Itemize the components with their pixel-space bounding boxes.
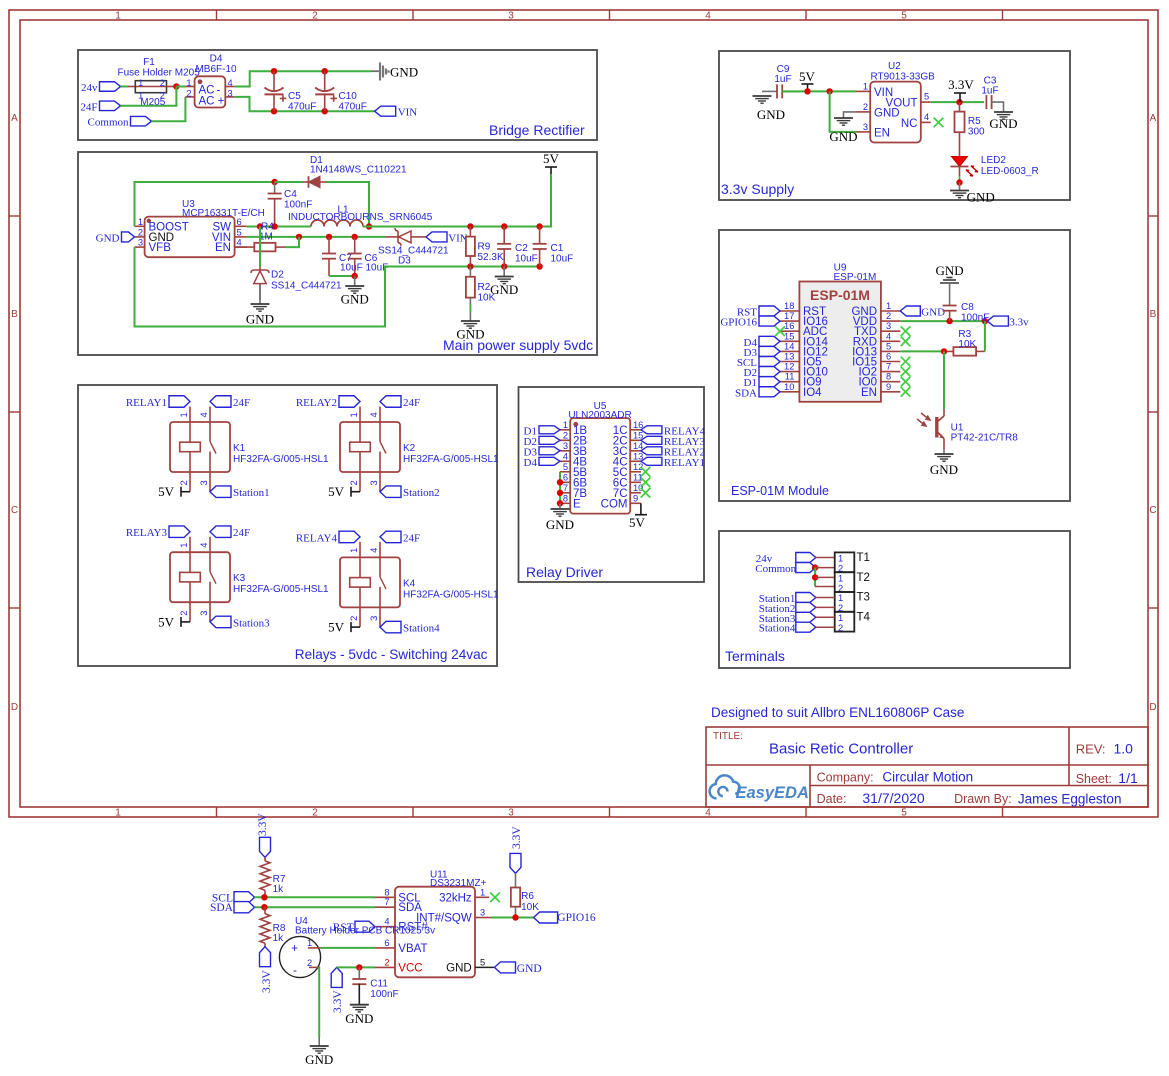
- svg-text:C8: C8: [961, 302, 974, 313]
- svg-text:RELAY2: RELAY2: [296, 397, 337, 409]
- svg-text:T3: T3: [857, 592, 870, 604]
- svg-text:GND: GND: [446, 962, 472, 974]
- net flag D2 (ESP): [759, 367, 780, 377]
- svg-text:Designed to suit Allbro ENL160: Designed to suit Allbro ENL160806P Case: [711, 705, 964, 720]
- svg-text:U2: U2: [888, 61, 901, 72]
- svg-text:Battery Holder PCB CR1025 3v: Battery Holder PCB CR1025 3v: [295, 926, 435, 937]
- net flag SCL (ESP): [759, 357, 780, 367]
- wire: [814, 568, 816, 587]
- junction C11: [356, 964, 362, 970]
- svg-text:2: 2: [349, 616, 359, 621]
- no-connect X on U5 pin 12: [641, 467, 651, 477]
- svg-text:1: 1: [863, 81, 868, 91]
- wire: [782, 90, 857, 92]
- resistor R4 1M: [235, 222, 285, 252]
- svg-text:10K: 10K: [958, 339, 976, 350]
- svg-text:IO4: IO4: [803, 387, 822, 399]
- svg-text:DS3231MZ+: DS3231MZ+: [430, 878, 487, 889]
- terminal T2: [835, 572, 855, 593]
- svg-text:VOUT: VOUT: [886, 98, 918, 110]
- svg-text:1uF: 1uF: [981, 86, 998, 97]
- svg-text:C10: C10: [339, 91, 358, 102]
- svg-text:2: 2: [186, 89, 191, 99]
- net flag RELAY4 (driver): [641, 426, 662, 434]
- svg-text:INT#/SQW: INT#/SQW: [416, 913, 472, 925]
- wire: [247, 236, 386, 238]
- svg-text:D: D: [11, 702, 18, 713]
- svg-text:D: D: [1149, 702, 1156, 713]
- svg-text:1M: 1M: [259, 232, 273, 243]
- svg-text:1: 1: [838, 593, 843, 603]
- svg-text:4: 4: [237, 238, 242, 248]
- sheet frame inner border: [20, 20, 1148, 807]
- svg-text:GND: GND: [829, 129, 857, 144]
- junction 5V: [804, 88, 810, 94]
- net flag 24v: [100, 82, 121, 92]
- svg-text:HF32FA-G/005-HSL1: HF32FA-G/005-HSL1: [233, 454, 329, 465]
- wire: [470, 266, 539, 268]
- junction C5 top: [271, 68, 277, 74]
- svg-text:6: 6: [384, 938, 389, 948]
- svg-text:Station4: Station4: [759, 623, 796, 635]
- svg-text:Common: Common: [755, 563, 796, 575]
- svg-text:Fuse Holder M205: Fuse Holder M205: [118, 68, 201, 79]
- junction C2 bottom: [501, 263, 507, 269]
- svg-text:B: B: [11, 309, 18, 320]
- svg-text:MCP16331T-E/CH: MCP16331T-E/CH: [182, 208, 265, 219]
- net flag D4 (ESP): [759, 336, 780, 346]
- svg-text:TITLE:: TITLE:: [713, 731, 743, 742]
- svg-text:K3: K3: [233, 573, 246, 584]
- svg-text:SS14_C444721: SS14_C444721: [271, 281, 342, 292]
- svg-text:R6: R6: [521, 891, 534, 902]
- net flag D1: [539, 426, 560, 434]
- svg-text:GPIO16: GPIO16: [720, 317, 757, 329]
- svg-text:4: 4: [199, 543, 209, 548]
- svg-text:GND: GND: [517, 963, 542, 975]
- net flag VIN (bridge): [375, 106, 396, 116]
- net flag Common (terminals): [796, 563, 816, 573]
- svg-text:GND: GND: [96, 232, 120, 244]
- svg-text:16: 16: [784, 321, 794, 331]
- svg-text:12: 12: [633, 462, 643, 472]
- svg-text:2: 2: [179, 611, 189, 616]
- wire: [816, 626, 835, 628]
- svg-text:C: C: [11, 505, 18, 516]
- svg-text:VCC: VCC: [398, 962, 422, 974]
- power flag 5V at K2: [351, 487, 360, 497]
- svg-text:RELAY1: RELAY1: [126, 397, 167, 409]
- svg-text:PT42-21C/TR8: PT42-21C/TR8: [951, 433, 1019, 444]
- net flag RELAY2 (driver): [641, 447, 662, 455]
- capacitor C11 100nF: [352, 967, 398, 1004]
- wire: [121, 86, 129, 88]
- svg-text:Date:: Date:: [817, 792, 847, 806]
- wire: [815, 586, 835, 588]
- svg-text:SDA: SDA: [735, 387, 757, 399]
- section box: Relays: [78, 385, 497, 666]
- svg-text:VIN: VIN: [398, 107, 418, 119]
- wire: [900, 350, 944, 352]
- ground left of C9: [762, 90, 777, 92]
- svg-text:VIN: VIN: [448, 232, 468, 244]
- svg-text:5: 5: [924, 92, 929, 102]
- svg-text:16: 16: [633, 420, 643, 430]
- section box: ESP-01M Module: [719, 230, 1070, 501]
- junction EN branch: [826, 88, 832, 94]
- svg-text:10uF: 10uF: [551, 254, 574, 265]
- power flag 5V at U5 COM: [635, 503, 647, 514]
- wire: [321, 947, 375, 949]
- relay K2 HF32FA-G/005-HSL1: [340, 407, 499, 492]
- svg-text:GND: GND: [246, 312, 274, 327]
- relay K1 HF32FA-G/005-HSL1: [170, 407, 329, 492]
- svg-text:Common: Common: [88, 117, 129, 129]
- svg-text:Station2: Station2: [403, 487, 440, 499]
- EasyEDA logo: [710, 775, 809, 802]
- terminal T1: [835, 552, 855, 573]
- svg-text:T4: T4: [857, 611, 871, 623]
- svg-text:+: +: [291, 941, 298, 955]
- junction D2 branch: [257, 223, 263, 229]
- svg-text:SS14_C444721: SS14_C444721: [378, 246, 449, 257]
- net flag RELAY3: [169, 526, 190, 538]
- net flag Common: [131, 116, 152, 126]
- inductor L1 SRN6045: [288, 205, 433, 227]
- wire: [984, 321, 986, 351]
- svg-text:2: 2: [886, 311, 891, 321]
- resistor R6 10K: [511, 873, 539, 917]
- terminal T3: [835, 592, 855, 613]
- power flag 5V (3.3v supply): [802, 84, 814, 91]
- section box: Terminals: [719, 531, 1070, 668]
- net flag D1 (ESP): [759, 377, 780, 387]
- junction pin7: [557, 490, 563, 496]
- net flag 24F at K2: [380, 396, 401, 408]
- svg-text:52.3K: 52.3K: [478, 252, 504, 263]
- wire: [900, 320, 985, 322]
- junction C1 top: [536, 223, 542, 229]
- net flag D3 (ESP): [759, 346, 780, 356]
- wire: [318, 967, 321, 1037]
- svg-text:D3: D3: [398, 256, 411, 267]
- resistor R5 300: [955, 102, 986, 156]
- net label GND at ESP pin1: [900, 306, 920, 316]
- net flag RELAY2: [339, 396, 360, 408]
- svg-text:3: 3: [138, 238, 143, 248]
- svg-text:T2: T2: [857, 572, 870, 584]
- capacitor C9 1uF: [774, 64, 800, 98]
- svg-text:3.3V: 3.3V: [511, 826, 523, 849]
- section box: Main power supply 5vdc: [78, 152, 597, 355]
- no-connect X on 32kHz: [490, 893, 500, 903]
- svg-text:5V: 5V: [158, 484, 175, 499]
- svg-text:Bridge Rectifier: Bridge Rectifier: [489, 122, 585, 138]
- svg-text:10: 10: [633, 483, 643, 493]
- svg-text:ULN2003ADR: ULN2003ADR: [568, 410, 631, 421]
- capacitor C1 10uF: [533, 227, 574, 267]
- svg-text:LED-0603_R: LED-0603_R: [981, 166, 1039, 177]
- svg-text:HF32FA-G/005-HSL1: HF32FA-G/005-HSL1: [233, 584, 329, 595]
- svg-text:11: 11: [785, 372, 795, 382]
- junction C1 bottom: [536, 263, 542, 269]
- svg-text:4: 4: [924, 112, 929, 122]
- fuse F1: [118, 57, 201, 108]
- svg-text:K1: K1: [233, 443, 246, 454]
- svg-text:1/1: 1/1: [1118, 770, 1138, 786]
- net flag RELAY1: [169, 396, 190, 408]
- wire: [491, 917, 534, 919]
- wire: [816, 616, 835, 618]
- svg-text:14: 14: [784, 341, 794, 351]
- capacitor C10 470uF: [315, 71, 367, 112]
- svg-text:A: A: [1150, 113, 1157, 124]
- svg-text:MB6F-10: MB6F-10: [195, 64, 237, 75]
- svg-text:24F: 24F: [233, 527, 250, 539]
- junction L1 right: [366, 223, 372, 229]
- svg-text:RELAY4: RELAY4: [296, 532, 338, 544]
- svg-text:3.3v: 3.3v: [1009, 317, 1029, 329]
- svg-text:RELAY1: RELAY1: [664, 457, 705, 469]
- module U9 ESP-01M: [780, 263, 900, 402]
- no-connect X on U2 NC: [934, 118, 944, 128]
- net flag Station3: [210, 616, 231, 628]
- junction C10 top: [322, 68, 328, 74]
- svg-text:GND: GND: [967, 189, 995, 204]
- svg-text:31/7/2020: 31/7/2020: [862, 790, 924, 806]
- svg-text:4: 4: [369, 548, 379, 553]
- net flag GND at U3 pin2: [122, 232, 135, 242]
- no-connect X on ESP right pin: [901, 387, 911, 397]
- svg-text:R9: R9: [478, 242, 491, 253]
- ground below U5 pin E: [559, 503, 561, 509]
- svg-text:AC +: AC +: [199, 96, 225, 108]
- svg-text:1k: 1k: [273, 884, 285, 895]
- svg-text:1N4148WS_C110221: 1N4148WS_C110221: [310, 165, 407, 176]
- svg-text:24F: 24F: [80, 101, 97, 113]
- svg-text:A: A: [11, 113, 18, 124]
- wire: [816, 557, 835, 559]
- svg-text:1: 1: [179, 543, 189, 548]
- wire: [815, 576, 835, 578]
- svg-text:5V: 5V: [328, 484, 345, 499]
- svg-text:1: 1: [349, 412, 359, 417]
- svg-text:GND: GND: [345, 1011, 373, 1026]
- junction R7: [261, 894, 267, 900]
- wire: [285, 237, 299, 247]
- svg-text:GND: GND: [305, 1052, 333, 1067]
- svg-text:2: 2: [179, 480, 189, 485]
- svg-text:Sheet:: Sheet:: [1076, 772, 1112, 786]
- svg-text:3: 3: [199, 611, 209, 616]
- svg-text:2: 2: [138, 227, 143, 237]
- junction R6: [512, 914, 518, 920]
- svg-text:15: 15: [784, 331, 794, 341]
- svg-text:3: 3: [863, 122, 868, 132]
- svg-text:300: 300: [968, 127, 985, 138]
- svg-text:17: 17: [784, 311, 794, 321]
- svg-text:5V: 5V: [328, 620, 345, 635]
- capacitor C4 100nF: [268, 182, 313, 227]
- junction C10 bottom: [322, 108, 328, 114]
- junction C6 bottom: [352, 273, 358, 279]
- svg-text:VFB: VFB: [149, 242, 172, 254]
- resistor R9 52.3K: [466, 227, 504, 267]
- diode D2 SS14 (to GND): [251, 267, 342, 301]
- svg-text:8: 8: [886, 372, 891, 382]
- no-connect X on ADC pin: [775, 326, 785, 336]
- power flag 3.3V below R8: [260, 947, 271, 967]
- svg-text:4: 4: [705, 808, 711, 819]
- svg-text:HF32FA-G/005-HSL1: HF32FA-G/005-HSL1: [403, 589, 499, 600]
- svg-text:C5: C5: [288, 91, 301, 102]
- net flag GPIO16 (RTC): [534, 912, 558, 923]
- svg-text:Terminals: Terminals: [725, 648, 785, 664]
- junction C5 bottom: [271, 108, 277, 114]
- net flag Station4 (terminals): [796, 622, 816, 632]
- no-connect X on ESP right pin: [901, 326, 911, 336]
- svg-text:3.3V: 3.3V: [332, 990, 344, 1013]
- svg-text:C1: C1: [551, 243, 564, 254]
- svg-text:GND: GND: [936, 263, 964, 278]
- diode D1 1N4148WS: [302, 155, 407, 188]
- section box: Relay Driver: [519, 387, 705, 582]
- resistor R7 1k (zigzag): [260, 857, 286, 897]
- svg-text:470uF: 470uF: [339, 102, 367, 113]
- svg-text:3: 3: [199, 480, 209, 485]
- wire: [326, 182, 369, 227]
- power flag 3.3V above R6: [510, 853, 521, 873]
- svg-text:GND: GND: [930, 462, 958, 477]
- svg-text:13: 13: [784, 352, 794, 362]
- junction R3 rail: [982, 318, 988, 324]
- wire: [815, 567, 835, 569]
- svg-text:1: 1: [138, 78, 143, 88]
- junction R8: [261, 904, 267, 910]
- no-connect X on ESP right pin: [901, 367, 911, 377]
- svg-text:C: C: [1149, 505, 1156, 516]
- svg-text:T1: T1: [857, 552, 870, 564]
- net flag RELAY4: [339, 531, 360, 543]
- svg-text:1: 1: [886, 301, 891, 311]
- junction Common 2: [812, 574, 818, 580]
- wire: [255, 906, 376, 908]
- svg-text:GND: GND: [341, 292, 369, 307]
- diode D3 SS14 to VIN flag: [378, 228, 449, 267]
- svg-text:10: 10: [784, 382, 794, 392]
- net flag VIN (main): [426, 232, 447, 242]
- wire: [816, 597, 835, 599]
- net flag SDA (RTC): [234, 902, 255, 913]
- net flag 24F: [100, 101, 121, 111]
- svg-text:7: 7: [563, 483, 568, 493]
- svg-text:4: 4: [228, 78, 233, 88]
- junction C7 top: [326, 234, 332, 240]
- terminal T4: [835, 612, 855, 633]
- svg-text:Relays - 5vdc - Switching 24va: Relays - 5vdc - Switching 24vac: [295, 647, 488, 662]
- power flag 5V at K1: [181, 487, 190, 497]
- frame column ticks top/bottom: [216, 10, 218, 20]
- svg-text:GND: GND: [490, 282, 518, 297]
- junction C8: [946, 318, 952, 324]
- svg-text:5: 5: [563, 462, 568, 472]
- junction C4 top: [271, 179, 277, 185]
- junction C6 top: [352, 234, 358, 240]
- svg-text:1: 1: [838, 613, 843, 623]
- svg-text:D4: D4: [210, 54, 223, 65]
- svg-text:1: 1: [838, 573, 843, 583]
- wire: [337, 966, 375, 968]
- wire: [363, 174, 551, 227]
- svg-text:5V: 5V: [158, 614, 175, 629]
- svg-text:Station1: Station1: [233, 487, 270, 499]
- svg-text:1uF: 1uF: [774, 74, 791, 85]
- svg-text:5: 5: [901, 11, 907, 22]
- svg-text:100nF: 100nF: [370, 989, 398, 1000]
- svg-text:2: 2: [307, 958, 312, 968]
- junction C4 bottom: [271, 223, 277, 229]
- LED2 LED-0603_R: [951, 155, 1039, 183]
- svg-text:14: 14: [633, 441, 643, 451]
- svg-text:5V: 5V: [799, 69, 816, 84]
- net flag 24F at K4: [380, 531, 401, 543]
- svg-text:12: 12: [784, 362, 794, 372]
- svg-text:1: 1: [186, 78, 191, 88]
- net flag 24F at K1: [210, 396, 231, 408]
- svg-text:7: 7: [886, 362, 891, 372]
- ground below LED2: [959, 183, 961, 191]
- wire: [559, 472, 561, 504]
- ground below C2: [503, 267, 505, 277]
- svg-text:24F: 24F: [403, 397, 420, 409]
- svg-text:10K: 10K: [521, 902, 539, 913]
- svg-text:ESP-01M Module: ESP-01M Module: [731, 484, 829, 498]
- svg-text:10uF: 10uF: [515, 254, 538, 265]
- svg-text:8: 8: [563, 493, 568, 503]
- svg-text:7: 7: [384, 897, 389, 907]
- svg-text:Circular Motion: Circular Motion: [882, 770, 973, 785]
- resistor R8 1k (zigzag): [260, 907, 286, 947]
- wire: [121, 87, 177, 106]
- ground below C6: [354, 276, 356, 286]
- svg-text:1: 1: [838, 554, 843, 564]
- svg-text:Basic Retic Controller: Basic Retic Controller: [769, 741, 913, 758]
- svg-text:-: -: [293, 963, 297, 977]
- svg-text:SDA: SDA: [210, 902, 234, 914]
- svg-text:5: 5: [901, 808, 907, 819]
- svg-text:3: 3: [508, 11, 514, 22]
- svg-text:EN: EN: [861, 387, 877, 399]
- bridge rectifier D4 MB6F-10: [185, 76, 234, 107]
- capacitor C5 470uF: [265, 71, 317, 112]
- svg-text:5: 5: [237, 227, 242, 237]
- junction R9 R2: [467, 263, 473, 269]
- net flag Station3 (terminals): [796, 612, 816, 622]
- svg-text:LED2: LED2: [981, 155, 1006, 166]
- wire: [135, 182, 275, 226]
- svg-text:5: 5: [886, 341, 891, 351]
- net flag RST (RTC): [355, 921, 375, 932]
- no-connect X on ESP right pin: [901, 377, 911, 387]
- svg-text:F1: F1: [143, 57, 155, 68]
- wire: [931, 101, 984, 103]
- no-connect X on ESP right pin: [901, 357, 911, 367]
- svg-text:Drawn By:: Drawn By:: [954, 792, 1012, 806]
- svg-text:ESP-01M: ESP-01M: [810, 287, 870, 303]
- svg-text:32kHz: 32kHz: [439, 892, 472, 904]
- svg-text:INDUCTORBOURNS_SRN6045: INDUCTORBOURNS_SRN6045: [288, 212, 433, 223]
- svg-text:NC: NC: [901, 118, 918, 130]
